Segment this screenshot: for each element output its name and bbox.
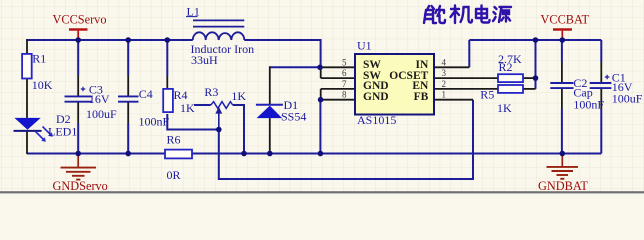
svg-text:FB: FB [414, 91, 429, 103]
pin stub U1 pin 1 [434, 99, 473, 101]
svg-text:6: 6 [342, 68, 347, 78]
lead C1 top pin [600, 62, 602, 82]
capacitor C1 [590, 71, 626, 88]
node SW [317, 65, 323, 71]
node chip GND pin 8 [318, 97, 324, 103]
wire pin4 riser to VCCBAT rail [468, 40, 470, 67]
node VCCServo C3 top [75, 37, 81, 43]
pin stub U1 pin 6 [321, 77, 355, 79]
wire R3 left stub [194, 104, 211, 106]
value Inductor Iron 33uH of L1 [191, 42, 255, 67]
IC U1 AS1015 body [355, 39, 434, 115]
U1 pin numbers 4 3 2 1 [442, 57, 447, 99]
capacitor C3 [65, 82, 103, 101]
wire chip GND pins down to ground rail [319, 100, 321, 154]
power symbol VCCServo [53, 13, 107, 40]
svg-text:R5: R5 [480, 88, 494, 102]
capacitor C4 [118, 87, 153, 102]
lead C3 bottom pin [77, 102, 79, 123]
lead D1 cathode pin [269, 66, 271, 104]
svg-text:2: 2 [442, 79, 447, 89]
pin stub U1 pin 3 to R2 [434, 77, 498, 79]
svg-text:VCCServo: VCCServo [53, 13, 107, 27]
svg-text:10K: 10K [32, 78, 53, 92]
value 16V 100uF of C1 [612, 80, 643, 105]
lead C3 top pin [77, 75, 79, 96]
node C3 bottom GNDServo [75, 151, 81, 157]
svg-text:1K: 1K [231, 89, 246, 103]
U1 pin numbers 5 6 7 8 [342, 57, 347, 99]
lead R1 top pin [26, 39, 28, 54]
lead C4 top pin [127, 75, 129, 96]
svg-text:1: 1 [442, 90, 447, 100]
node riser top on VCCBAT rail [533, 37, 539, 43]
lead R4 top pin [166, 76, 168, 89]
value Cap 100nF of C2 [573, 86, 604, 112]
svg-text:100nF: 100nF [573, 97, 604, 111]
capacitor C2 [550, 76, 587, 90]
svg-text:0R: 0R [167, 168, 181, 182]
node R3 bottom [241, 151, 247, 157]
svg-text:R3: R3 [204, 85, 218, 99]
wire FB loop pin1 to wiper node [219, 100, 473, 179]
node R4 top [165, 37, 171, 43]
lead C4 bottom pin [127, 102, 129, 123]
node C4 bottom [125, 151, 131, 157]
svg-text:100uF: 100uF [86, 107, 117, 121]
lead R1 bottom pin to D2 [26, 79, 28, 118]
lead D1 anode pin [269, 118, 271, 154]
node chip GND bottom [318, 151, 324, 157]
diode D1 [256, 98, 298, 118]
pin stub U1 pin 8 [321, 99, 355, 101]
lead R5 right pin [523, 88, 536, 90]
wire R4 riser from rail [166, 39, 168, 76]
node C2 bottom GNDBAT [560, 151, 566, 157]
lead C2 top pin [561, 62, 563, 82]
svg-text:3: 3 [442, 68, 447, 78]
lead C2 bottom pin [561, 89, 563, 109]
pin stub U1 pin 4 [434, 66, 469, 68]
node C4 top [125, 37, 131, 43]
svg-text:1K: 1K [497, 101, 512, 115]
svg-text:2.7K: 2.7K [498, 52, 522, 66]
wire rail from inductor to SW corner [244, 40, 320, 67]
wire VCCServo rail left segment [27, 39, 193, 41]
resistor R4 [163, 88, 187, 112]
svg-text:7: 7 [342, 79, 347, 89]
svg-text:LED1: LED1 [48, 125, 77, 139]
wire ground rail right of R6 [192, 153, 601, 155]
wire R2 R5 riser to VCCBAT rail [535, 40, 537, 89]
svg-text:U1: U1 [357, 39, 372, 53]
svg-text:AS1015: AS1015 [357, 113, 396, 127]
svg-text:VCCBAT: VCCBAT [541, 13, 590, 27]
svg-text:C4: C4 [139, 87, 153, 101]
resistor R6 [165, 133, 192, 159]
lead R2 right pin [523, 77, 536, 79]
node R2 right riser [533, 75, 539, 81]
pin stub U1 pin 2 to R5 [434, 88, 498, 90]
node wiper FB [216, 127, 222, 133]
wire C1 riser from rail [600, 40, 602, 62]
potentiometer R3 [204, 85, 232, 129]
svg-text:GND: GND [363, 91, 389, 103]
pin stub U1 pin 5 [320, 66, 355, 68]
power symbol VCCBAT [541, 13, 590, 40]
svg-text:GNDBAT: GNDBAT [538, 179, 588, 193]
svg-text:100uF: 100uF [612, 91, 643, 105]
wire ground rail left of R6 [27, 153, 165, 155]
svg-text:8: 8 [342, 90, 347, 100]
resistor R2 [498, 60, 523, 82]
svg-text:16V: 16V [89, 92, 110, 106]
wire VCCBAT rail [469, 39, 601, 41]
svg-text:33uH: 33uH [191, 53, 218, 67]
U1 pin names SW SW GND GND IN OCSET EN FB [363, 59, 429, 103]
wire C4 riser and dropper [127, 39, 129, 154]
node D1 bottom [267, 151, 273, 157]
lead D2 cathode pin [26, 132, 28, 154]
ground symbol GNDServo [53, 154, 108, 193]
svg-text:1K: 1K [180, 101, 195, 115]
svg-text:R4: R4 [174, 88, 188, 102]
svg-text:100nF: 100nF [139, 114, 170, 128]
svg-text:SS54: SS54 [281, 110, 306, 124]
LED D2 [14, 112, 71, 142]
wire C3 riser and dropper [77, 39, 79, 154]
lead C1 bottom pin [600, 89, 602, 109]
resistor R1 [22, 51, 46, 78]
ground symbol GNDBAT [538, 154, 588, 193]
tie U1 pins 5 and 6 [320, 67, 322, 78]
wire SW node to D1 [270, 66, 321, 68]
pin stub U1 pin 7 [321, 88, 355, 90]
svg-text:GNDServo: GNDServo [53, 179, 108, 193]
node VCCBAT C2 top [560, 37, 566, 43]
svg-text:R6: R6 [167, 133, 181, 147]
tie U1 pins 7 and 8 [320, 89, 322, 100]
value 16V 100uF of C3 [86, 92, 117, 121]
svg-text:R1: R1 [32, 51, 46, 65]
wire R4 bottom to wiper node [167, 114, 219, 130]
resistor R5 [480, 85, 523, 102]
title 舵机电源 drawn strokes [424, 6, 511, 24]
inductor L1 [186, 4, 244, 40]
svg-text:4: 4 [442, 57, 447, 67]
wire C2 riser and dropper [561, 39, 563, 154]
wire C1 dropper to ground rail [600, 109, 602, 154]
svg-text:5: 5 [342, 57, 347, 67]
wire R3 right terminal to ground rail [233, 105, 244, 154]
